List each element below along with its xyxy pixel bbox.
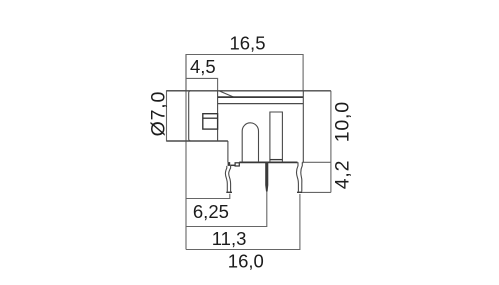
svg-text:10,0: 10,0 — [331, 101, 353, 142]
dimension 07,0 bracket — [167, 91, 187, 141]
dimension 6,25 line — [186, 194, 230, 199]
dimension 11,3 line — [186, 192, 267, 227]
svg-text:16,0: 16,0 — [228, 250, 264, 271]
jack: top seam dark line — [218, 96, 303, 98]
jack: barrel/body junction — [217, 91, 219, 141]
left wavy pin — [225, 166, 227, 192]
jack: second seam line — [218, 103, 303, 105]
jack: lower-left step — [227, 141, 229, 162]
jack: right edge — [302, 91, 304, 163]
right wavy pin — [297, 162, 299, 191]
dimension 16,0 line — [186, 194, 300, 250]
jack: top chamfer diagonal — [219, 91, 234, 97]
interior arch slot — [242, 123, 258, 162]
jack: barrel bottom edge — [167, 140, 228, 142]
dimension 4,5 line — [186, 78, 218, 90]
extension line left (barrel front) vertical — [185, 55, 187, 250]
svg-text:16,5: 16,5 — [229, 33, 265, 54]
tab square — [235, 163, 239, 166]
svg-text:Ø7,0: Ø7,0 — [148, 91, 170, 136]
middle pin dark bar — [265, 162, 268, 192]
interior tall rect slot — [270, 112, 283, 162]
svg-text:4,2: 4,2 — [331, 160, 353, 190]
svg-text:4,5: 4,5 — [190, 56, 216, 77]
jack: barrel front rim — [189, 91, 191, 141]
tab foot dark — [228, 162, 231, 166]
jack: bottom edge — [239, 161, 297, 163]
jack: pin-hole rect on barrel — [203, 114, 218, 129]
svg-text:6,25: 6,25 — [193, 201, 229, 222]
svg-text:11,3: 11,3 — [212, 228, 247, 249]
dimension 16,5 line — [186, 55, 303, 91]
jack: top edge — [167, 90, 331, 92]
dimension 10,0 / 4,2 bracket right — [303, 161, 331, 163]
